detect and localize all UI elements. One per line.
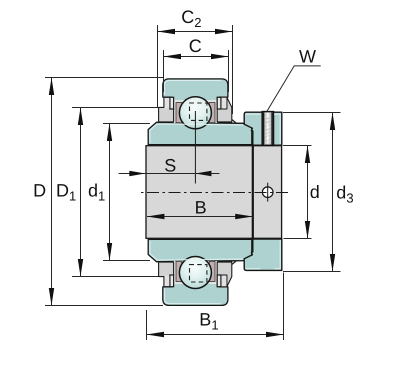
- d arrows: [305, 146, 310, 164]
- d3 extension lines: [283, 112, 341, 114]
- seal rubber left top: [176, 103, 182, 123]
- set screw side walls: [263, 113, 265, 146]
- flinger tab left bottom: [170, 275, 174, 287]
- d3 arrows: [330, 113, 335, 131]
- svg-text:S: S: [164, 155, 176, 175]
- flinger left top: [159, 97, 174, 122]
- centre line (shaft axis): [140, 192, 288, 194]
- B1 arrows: [147, 332, 165, 337]
- seal cavity background top: [174, 100, 218, 123]
- flinger right top: [217, 97, 232, 122]
- svg-text:B: B: [195, 198, 207, 218]
- svg-text:D: D: [33, 180, 46, 200]
- seal chamfer diagonal right top: [232, 120, 237, 124]
- d1 dimension line: [109, 124, 111, 261]
- flinger left bottom: [159, 262, 174, 287]
- eccentric collar top: [244, 112, 282, 145]
- raceway teal fill behind ball (bottom): [173, 280, 219, 288]
- seal rubber left bottom: [176, 261, 182, 281]
- ball bottom: [179, 257, 211, 289]
- outer ring bottom land: [163, 287, 228, 306]
- D1 arrows: [78, 108, 83, 126]
- svg-text:C: C: [189, 36, 202, 56]
- seal cavity background bottom: [174, 261, 218, 284]
- seal chamfer diagonal right bottom: [232, 261, 237, 265]
- C2 arrows: [158, 29, 176, 34]
- ball bottom dashed square: [190, 265, 207, 282]
- B1 dimension line: [147, 334, 284, 336]
- flinger tab left top: [170, 97, 174, 109]
- C extension lines: [163, 50, 165, 92]
- S dimension line: [119, 173, 220, 175]
- seal rubber right bottom: [209, 261, 215, 281]
- D1 extension lines: [72, 107, 159, 109]
- seal rubber right top: [209, 103, 215, 123]
- B dimension line: [147, 216, 253, 218]
- outer-ring flange top: [148, 122, 252, 144]
- teal inner highlights: [150, 81, 280, 304]
- outer ring top land (cap): [163, 79, 228, 97]
- set screw axis dashed: [267, 113, 269, 145]
- flinger step light fills: [165, 98, 227, 286]
- ball top: [179, 97, 211, 129]
- set screw W channel: [262, 112, 273, 146]
- screw hole vertical tick: [267, 183, 269, 202]
- D1 dimension line: [80, 108, 82, 277]
- W leader: [267, 66, 321, 112]
- raceway teal fill behind ball (top): [173, 96, 219, 104]
- B arrows: [147, 214, 165, 219]
- eccentric collar bottom: [244, 239, 282, 270]
- d3 dimension line: [332, 113, 334, 272]
- set screw thread hatching: [264, 114, 273, 145]
- C2 dimension line: [158, 31, 233, 33]
- svg-text:W: W: [299, 47, 316, 67]
- flinger right bottom: [217, 262, 232, 287]
- C dimension line: [164, 56, 229, 58]
- arrowheads: [49, 29, 335, 337]
- D extension lines: [45, 77, 163, 79]
- flinger tab right top: [217, 97, 221, 109]
- screw hole circle on axis: [262, 187, 273, 198]
- D arrows: [49, 78, 54, 96]
- S arrows (outside): [129, 171, 145, 176]
- outer-ring flange bottom: [148, 239, 252, 261]
- D dimension line: [51, 78, 53, 306]
- d extension lines: [283, 145, 312, 147]
- svg-text:d: d: [310, 182, 320, 202]
- C2 extension lines: [157, 25, 159, 108]
- d dimension line: [307, 146, 309, 239]
- C arrows: [164, 54, 182, 59]
- d1 extension lines: [103, 123, 150, 125]
- ball centre vertical line: [194, 111, 196, 184]
- d1 arrows: [107, 124, 112, 142]
- flinger tab right bottom: [217, 275, 221, 287]
- ball top dashed square: [190, 103, 207, 120]
- inner ring bore (grey body): [146, 146, 282, 239]
- inner ring / collar-extension divider: [252, 146, 254, 239]
- B1 extension lines: [146, 310, 148, 340]
